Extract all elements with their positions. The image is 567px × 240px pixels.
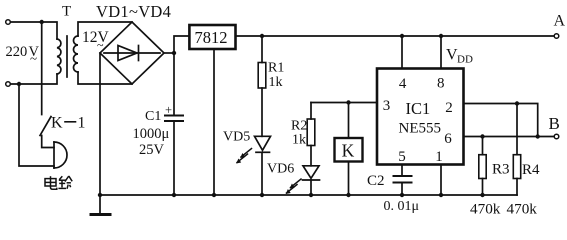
svg-text:~: ~	[97, 38, 104, 52]
svg-text:7812: 7812	[195, 28, 228, 47]
svg-text:3: 3	[383, 98, 391, 114]
svg-text:IC1: IC1	[406, 99, 431, 118]
svg-text:470k: 470k	[507, 201, 538, 218]
svg-text:1k: 1k	[269, 75, 283, 90]
svg-text:5: 5	[398, 149, 406, 165]
svg-text:25V: 25V	[139, 142, 165, 158]
svg-text:VD6: VD6	[267, 162, 294, 177]
svg-text:VD5: VD5	[223, 130, 250, 145]
svg-text:8: 8	[437, 76, 445, 92]
svg-text:220: 220	[6, 44, 28, 60]
svg-text:T: T	[62, 4, 71, 20]
svg-text:1: 1	[435, 149, 443, 165]
svg-text:C1: C1	[145, 109, 161, 124]
svg-text:DD: DD	[457, 54, 473, 66]
svg-text:470k: 470k	[470, 201, 501, 218]
svg-text:12: 12	[82, 29, 98, 46]
svg-text:0. 01μ: 0. 01μ	[384, 199, 420, 214]
svg-text:C2: C2	[367, 173, 385, 189]
svg-text:K: K	[51, 115, 63, 132]
svg-text:K: K	[342, 141, 355, 161]
svg-text:R1: R1	[268, 61, 284, 76]
svg-text:+: +	[165, 103, 172, 117]
svg-text:2: 2	[445, 100, 453, 116]
svg-text:B: B	[549, 114, 560, 133]
svg-text:1: 1	[78, 115, 86, 132]
svg-text:1000μ: 1000μ	[133, 126, 170, 142]
svg-text:~: ~	[30, 51, 37, 66]
svg-text:4: 4	[399, 76, 407, 92]
svg-text:R2: R2	[291, 119, 307, 134]
svg-text:6: 6	[444, 131, 452, 147]
svg-text:A: A	[554, 13, 566, 30]
svg-text:NE555: NE555	[399, 121, 442, 137]
svg-text:VD1~VD4: VD1~VD4	[96, 2, 171, 21]
svg-text:1k: 1k	[292, 133, 306, 148]
svg-text:R4: R4	[522, 162, 540, 178]
svg-text:R3: R3	[492, 162, 510, 178]
